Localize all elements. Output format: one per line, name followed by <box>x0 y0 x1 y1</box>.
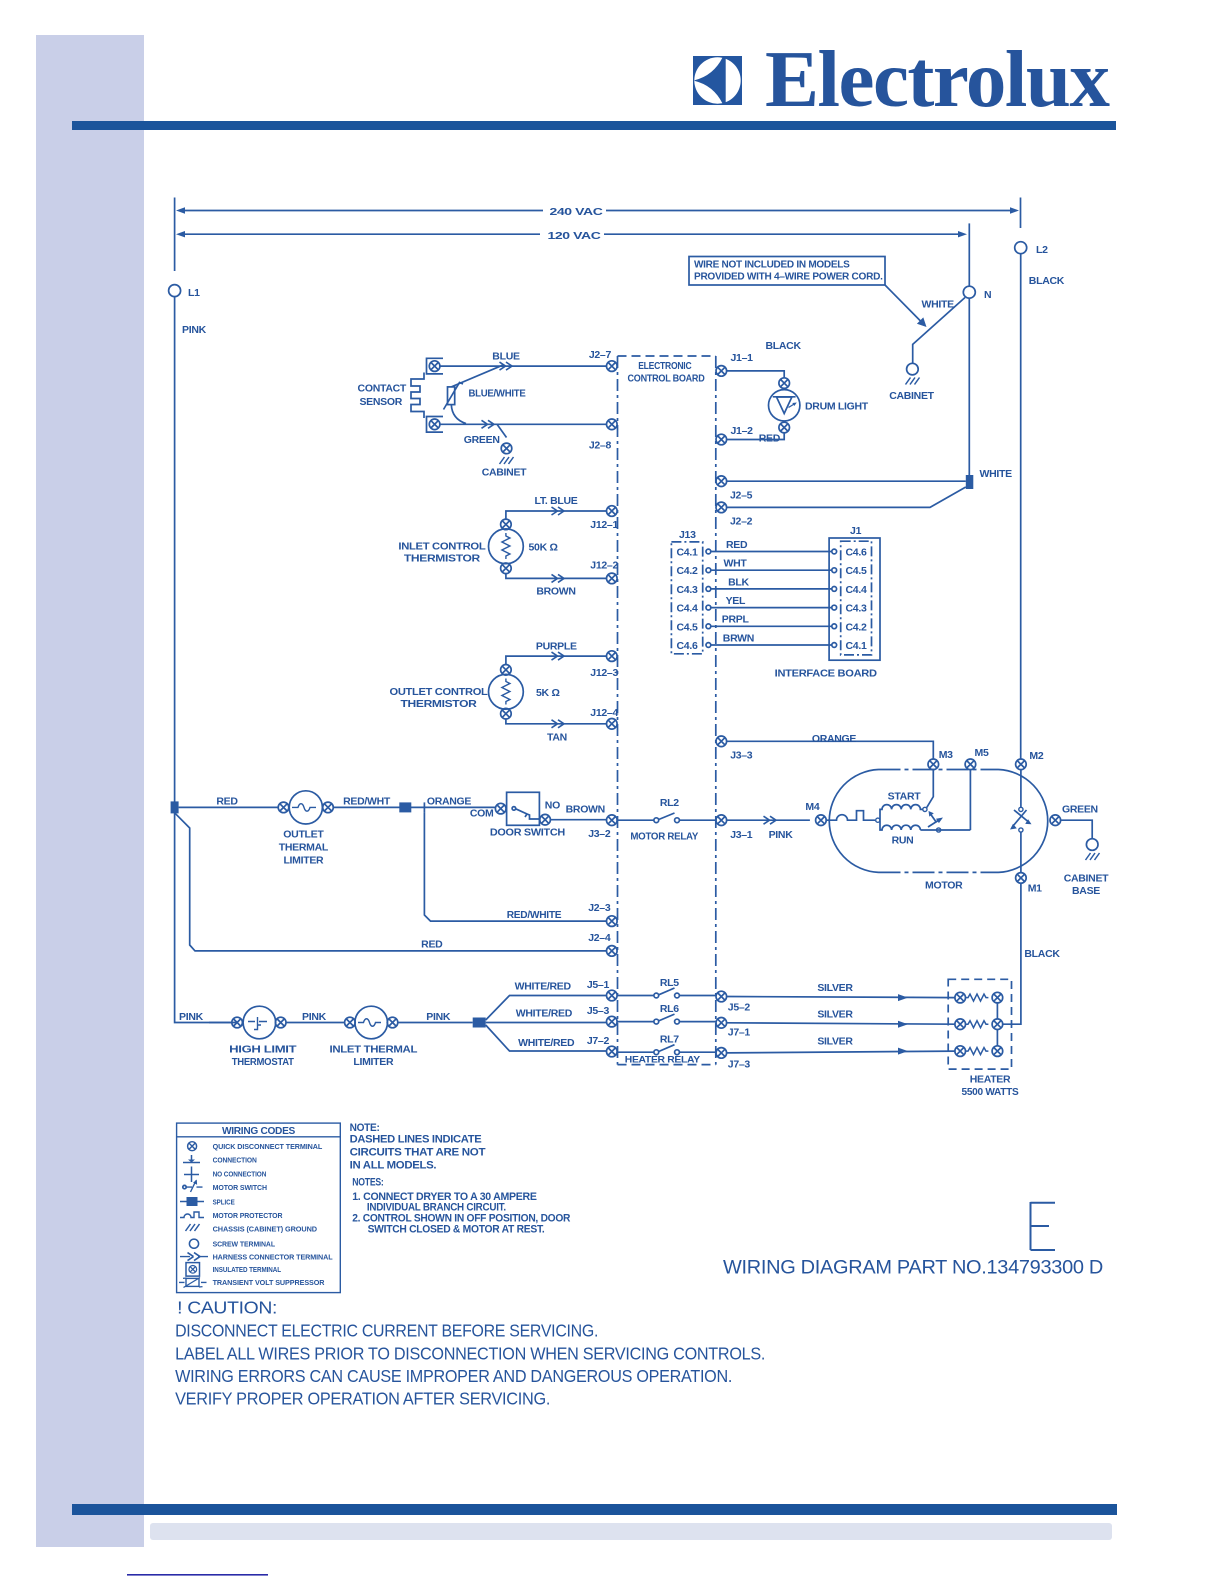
terminal door switch COM <box>495 803 506 814</box>
terminal M2 <box>1016 759 1027 770</box>
wire J2-2 white <box>727 487 966 507</box>
lamp drum light <box>769 390 800 421</box>
wire suppressor to blue <box>451 365 503 387</box>
screw terminal cabinet base <box>1086 839 1098 851</box>
contact sensor upper bracket <box>427 358 444 374</box>
wire J1-2 to drum light <box>727 433 784 440</box>
node L1 <box>169 285 181 297</box>
terminal door switch NO <box>540 814 551 825</box>
svg-text:L1: L1 <box>188 287 200 299</box>
code symbol chassis ground <box>186 1224 200 1231</box>
protector inlet thermal limiter <box>355 1006 388 1039</box>
winding START <box>880 805 923 821</box>
svg-text:WIRING CODES: WIRING CODES <box>222 1126 296 1137</box>
pin circle J1 C4.1 <box>832 643 837 648</box>
svg-text:WIRING ERRORS CAN CAUSE IMPROP: WIRING ERRORS CAN CAUSE IMPROPER AND DAN… <box>175 1366 732 1386</box>
svg-text:BLACK: BLACK <box>1024 948 1060 960</box>
suppressor RV1 diagonal <box>444 383 464 410</box>
svg-text:RL2: RL2 <box>660 797 679 809</box>
splice main left <box>171 801 179 813</box>
svg-text:RED: RED <box>759 433 781 445</box>
arrowhead right 120 <box>958 231 967 237</box>
protector outlet thermal limiter <box>289 791 322 824</box>
svg-text:WHITE/RED: WHITE/RED <box>516 1007 573 1019</box>
wire WHITE/RED J5-1 <box>486 996 607 1021</box>
svg-text:DISCONNECT ELECTRIC CURRENT BE: DISCONNECT ELECTRIC CURRENT BEFORE SERVI… <box>175 1321 598 1341</box>
svg-text:WIRE NOT INCLUDED IN MODELS: WIRE NOT INCLUDED IN MODELS <box>694 259 850 271</box>
splice orange <box>399 802 411 812</box>
switch centrifugal nodes <box>1019 807 1023 811</box>
svg-text:CONNECTION: CONNECTION <box>213 1156 257 1165</box>
svg-text:J2–7: J2–7 <box>589 349 612 361</box>
terminal J1-1 <box>716 366 727 377</box>
svg-text:PINK: PINK <box>179 1011 204 1023</box>
svg-text:NOTES:: NOTES: <box>352 1177 383 1189</box>
svg-text:PROVIDED WITH 4–WIRE POWER COR: PROVIDED WITH 4–WIRE POWER CORD. <box>694 271 883 283</box>
svg-text:TAN: TAN <box>547 732 567 744</box>
svg-text:CABINET: CABINET <box>1064 873 1109 885</box>
switch door switch box <box>507 792 540 825</box>
wire J1-1 to drum light <box>727 371 784 377</box>
svg-text:M5: M5 <box>975 747 989 759</box>
pin circle J13 C4.3 <box>706 587 711 592</box>
wire J2-5 white <box>727 480 966 482</box>
wire BLUE <box>440 365 607 367</box>
svg-text:BLUE/WHITE: BLUE/WHITE <box>469 388 526 400</box>
pin circle J1 C4.4 <box>832 587 837 592</box>
svg-text:TRANSIENT VOLT SUPPRESSOR: TRANSIENT VOLT SUPPRESSOR <box>213 1278 325 1287</box>
svg-text:DASHED LINES INDICATE: DASHED LINES INDICATE <box>350 1134 482 1146</box>
wire PINK motor <box>727 819 810 821</box>
terminal M5 <box>965 759 976 770</box>
svg-text:RUN: RUN <box>892 835 914 847</box>
wire SILVER 1 <box>727 997 955 998</box>
svg-text:PINK: PINK <box>426 1011 451 1023</box>
svg-text:CONTROL BOARD: CONTROL BOARD <box>628 373 706 385</box>
svg-text:RL6: RL6 <box>660 1003 679 1015</box>
motor outline top dash-dot <box>879 769 999 771</box>
note box wire not included <box>689 257 885 286</box>
svg-text:CABINET: CABINET <box>482 467 527 479</box>
wire BLK <box>711 588 832 590</box>
terminal J12-4 <box>607 719 618 730</box>
terminal heater 3 right <box>992 1046 1003 1057</box>
svg-text:PINK: PINK <box>302 1011 327 1023</box>
terminal J5-2 <box>716 991 727 1002</box>
arrowhead silver 3 <box>898 1048 908 1055</box>
svg-text:WHITE/RED: WHITE/RED <box>518 1037 575 1049</box>
terminal J12-2 <box>607 573 618 584</box>
top header bar <box>72 121 1116 130</box>
terminal J2-7 <box>607 361 618 372</box>
arrowhead right 240 <box>1010 207 1019 213</box>
arrowhead left 120 <box>176 231 185 237</box>
harness arrows GREEN <box>482 420 495 428</box>
svg-text:J3–1: J3–1 <box>730 829 753 841</box>
svg-text:SWITCH CLOSED & MOTOR AT REST.: SWITCH CLOSED & MOTOR AT REST. <box>368 1223 545 1235</box>
wire PINK to splice <box>398 1022 473 1024</box>
svg-text:THERMISTOR: THERMISTOR <box>401 698 478 710</box>
bottom bar <box>72 1504 1117 1515</box>
wire BROWN <box>551 819 607 821</box>
svg-text:SILVER: SILVER <box>817 1009 853 1021</box>
terminal inlet limiter right <box>387 1017 398 1028</box>
svg-text:BLACK: BLACK <box>766 340 802 352</box>
wire GREEN row <box>440 423 607 425</box>
wire WHITE/RED J5-3 <box>486 1022 607 1024</box>
terminal outlet thermal limiter left <box>278 802 289 813</box>
wire 240 VAC dimension <box>179 210 1016 212</box>
svg-text:DOOR SWITCH: DOOR SWITCH <box>490 827 565 839</box>
wire ORANGE <box>727 741 933 759</box>
terminal J7-2 <box>607 1046 618 1057</box>
svg-text:J1–2: J1–2 <box>731 425 754 437</box>
svg-text:QUICK DISCONNECT TERMINAL: QUICK DISCONNECT TERMINAL <box>213 1142 323 1151</box>
wire PRPL <box>711 625 832 627</box>
node run wire <box>937 828 941 832</box>
svg-text:PINK: PINK <box>182 324 207 336</box>
terminal heater 2 left <box>955 1019 966 1030</box>
wire green branch to cabinet <box>497 424 507 437</box>
svg-text:WHITE: WHITE <box>980 468 1013 480</box>
terminal M3 <box>928 759 939 770</box>
terminal J5-1 <box>607 990 618 1001</box>
wire heater right link 1-2 <box>996 1003 998 1019</box>
terminal heater 1 left <box>955 992 966 1003</box>
wire YEL <box>711 607 832 609</box>
svg-text:M4: M4 <box>805 801 819 813</box>
svg-text:C4.3: C4.3 <box>846 603 867 615</box>
svg-text:MOTOR RELAY: MOTOR RELAY <box>630 831 698 843</box>
svg-text:INTERFACE BOARD: INTERFACE BOARD <box>775 668 878 680</box>
terminal J7-3 <box>716 1048 727 1059</box>
wire BROWN <box>506 574 607 579</box>
svg-text:J2–2: J2–2 <box>730 516 753 528</box>
svg-text:WIRING DIAGRAM PART NO.1347933: WIRING DIAGRAM PART NO.134793300 D <box>723 1257 1103 1279</box>
suppressor RV1 body <box>448 387 455 405</box>
wire SILVER 3 <box>727 1051 955 1053</box>
wire WHITE/RED J7-2 <box>486 1025 607 1051</box>
wire SILVER 2 <box>727 1023 955 1024</box>
svg-text:BRWN: BRWN <box>723 632 754 644</box>
svg-text:INLET CONTROL: INLET CONTROL <box>398 541 486 553</box>
wire GREEN to cabinet base <box>1061 820 1092 838</box>
svg-text:240 VAC: 240 VAC <box>550 206 604 218</box>
svg-text:BROWN: BROWN <box>566 804 605 816</box>
svg-text:J7–3: J7–3 <box>728 1059 751 1071</box>
tick right 120 / N lead <box>968 223 970 286</box>
svg-text:BLK: BLK <box>728 576 749 588</box>
svg-text:COM: COM <box>470 808 494 820</box>
svg-text:C4.4: C4.4 <box>846 584 867 596</box>
board J1 outer box <box>829 538 880 660</box>
terminal J1-2 <box>716 434 727 445</box>
heater dashed box <box>948 979 1011 1069</box>
svg-text:YEL: YEL <box>726 595 746 607</box>
svg-text:HIGH LIMIT: HIGH LIMIT <box>229 1044 297 1056</box>
svg-text:L2: L2 <box>1036 244 1048 256</box>
svg-text:HARNESS CONNECTOR TERMINAL: HARNESS CONNECTOR TERMINAL <box>213 1252 333 1261</box>
svg-text:CIRCUITS THAT ARE NOT: CIRCUITS THAT ARE NOT <box>350 1146 486 1158</box>
terminal high limit right <box>275 1017 286 1028</box>
svg-text:C4.5: C4.5 <box>677 621 698 633</box>
tick right 240 <box>1020 198 1022 229</box>
pin circle J13 C4.5 <box>706 624 711 629</box>
revision letter E <box>1031 1202 1056 1250</box>
code symbol quick disconnect <box>188 1142 197 1151</box>
pin circle J1 C4.5 <box>832 568 837 573</box>
svg-text:M2: M2 <box>1029 750 1043 762</box>
left lavender band <box>36 35 144 1547</box>
terminal J5-3 <box>607 1016 618 1027</box>
thermistor RT2 outlet <box>489 674 524 709</box>
svg-text:SENSOR: SENSOR <box>359 396 402 408</box>
svg-text:OUTLET CONTROL: OUTLET CONTROL <box>390 686 489 698</box>
wire BRWN <box>711 644 832 646</box>
code symbol splice <box>180 1201 204 1203</box>
svg-text:120 VAC: 120 VAC <box>548 230 602 242</box>
terminal J2-2 <box>716 502 727 513</box>
svg-text:NO CONNECTION: NO CONNECTION <box>213 1169 267 1178</box>
wire switch to M1 <box>1020 832 1022 872</box>
terminal J3-1 <box>716 815 727 826</box>
terminal inlet thermistor top <box>501 519 512 530</box>
svg-text:C4.6: C4.6 <box>846 547 867 559</box>
wire WHT <box>711 569 832 571</box>
wire heater right link 2-3 <box>996 1030 998 1046</box>
motor outline bottom dash-dot <box>879 871 999 873</box>
wire 120 VAC dimension <box>179 233 963 235</box>
wire RED/WHITE J2-3 <box>424 812 606 921</box>
wire RL2 to J3-1 <box>679 819 716 821</box>
svg-text:IN ALL MODELS.: IN ALL MODELS. <box>350 1159 437 1171</box>
node L2 <box>1015 242 1027 254</box>
terminal outlet thermal limiter right <box>323 802 334 813</box>
terminal M1 <box>1016 873 1027 884</box>
terminal J12-3 <box>607 651 618 662</box>
svg-text:LT. BLUE: LT. BLUE <box>535 495 578 507</box>
svg-text:5500 WATTS: 5500 WATTS <box>962 1086 1019 1098</box>
connector J13 box <box>671 542 702 654</box>
svg-text:J12–3: J12–3 <box>590 667 618 679</box>
code symbol motor protector <box>180 1212 204 1218</box>
code symbol insulated terminal <box>186 1263 200 1277</box>
svg-text:WHITE: WHITE <box>922 299 955 311</box>
svg-text:HEATER: HEATER <box>970 1074 1011 1086</box>
svg-text:J12–1: J12–1 <box>590 519 618 531</box>
svg-text:DRUM LIGHT: DRUM LIGHT <box>805 401 869 413</box>
svg-text:CONTACT: CONTACT <box>358 383 407 395</box>
wire M2 to switch <box>1020 770 1022 807</box>
pin circle J13 C4.2 <box>706 568 711 573</box>
svg-text:N: N <box>984 289 991 301</box>
wire RED <box>711 551 832 553</box>
wire L1 main vertical <box>175 297 238 1023</box>
svg-text:J12–4: J12–4 <box>590 707 618 719</box>
terminal J3-2 <box>607 815 618 826</box>
svg-text:SCREW TERMINAL: SCREW TERMINAL <box>213 1240 276 1249</box>
ground cabinet green <box>500 457 514 464</box>
pin circle J13 C4.4 <box>706 605 711 610</box>
svg-text:GREEN: GREEN <box>1062 804 1098 816</box>
terminal J12-1 <box>607 506 618 517</box>
code symbol harness connector <box>180 1256 208 1258</box>
svg-text:RL5: RL5 <box>660 977 679 989</box>
svg-text:START: START <box>888 791 922 803</box>
svg-text:ORANGE: ORANGE <box>427 796 472 808</box>
svg-text:C4.4: C4.4 <box>677 603 698 615</box>
arrowhead silver 2 <box>898 1021 908 1028</box>
svg-text:C4.6: C4.6 <box>677 640 698 652</box>
svg-text:VERIFY PROPER OPERATION AFTER: VERIFY PROPER OPERATION AFTER SERVICING. <box>175 1388 550 1408</box>
contact sensor lower bracket <box>427 417 444 433</box>
svg-text:MOTOR: MOTOR <box>925 880 963 892</box>
Electrolux logo icon <box>693 56 742 105</box>
faint footer ghost text <box>150 1523 1112 1540</box>
motor outline right arc <box>999 770 1048 873</box>
node L1 tick <box>174 198 176 272</box>
terminal drum light bottom <box>779 422 790 433</box>
terminal heater 2 right <box>992 1019 1003 1030</box>
wire PINK itl <box>286 1022 345 1024</box>
wire run to M5 <box>920 770 970 830</box>
svg-text:J2–4: J2–4 <box>588 932 611 944</box>
node start coil end <box>923 807 927 811</box>
door switch blade <box>512 807 516 811</box>
splice pink three-way <box>473 1018 486 1028</box>
terminal heater 1 right <box>992 992 1003 1003</box>
svg-text:RED: RED <box>421 939 443 951</box>
wire RED otl <box>179 806 279 808</box>
svg-text:OUTLET: OUTLET <box>283 829 324 841</box>
svg-text:MOTOR SWITCH: MOTOR SWITCH <box>213 1183 267 1192</box>
svg-text:INSULATED TERMINAL: INSULATED TERMINAL <box>213 1265 282 1274</box>
ground cabinet base <box>1086 853 1100 860</box>
wire RED/WHT to door switch <box>333 806 495 808</box>
ground cabinet <box>906 378 920 385</box>
code symbol connection <box>183 1155 200 1163</box>
terminal heater 3 left <box>955 1046 966 1057</box>
wiring codes box <box>177 1123 341 1293</box>
thermistor RT1 inlet <box>489 529 524 564</box>
node motor common <box>876 818 880 822</box>
contact sensor comb <box>411 373 424 419</box>
svg-text:INLET THERMAL: INLET THERMAL <box>330 1044 419 1056</box>
terminal outlet thermistor bottom <box>501 708 512 719</box>
svg-text:BLACK: BLACK <box>1029 275 1065 287</box>
terminal outlet thermistor top <box>501 665 512 676</box>
svg-text:M1: M1 <box>1028 883 1042 895</box>
svg-text:PRPL: PRPL <box>722 614 750 626</box>
wire to RL2 <box>617 819 654 821</box>
terminal J7-1 <box>716 1018 727 1029</box>
switch start motor-switch arrow <box>928 820 939 827</box>
svg-text:J1–1: J1–1 <box>731 352 754 364</box>
winding RUN <box>880 820 920 830</box>
svg-text:SILVER: SILVER <box>817 982 853 994</box>
svg-text:LIMITER: LIMITER <box>353 1056 394 1068</box>
svg-text:RED/WHT: RED/WHT <box>343 796 391 808</box>
note arrow <box>885 285 921 322</box>
motor M outline left arc <box>829 770 878 873</box>
code symbol motor switch <box>183 1185 186 1188</box>
svg-text:J13: J13 <box>679 529 696 541</box>
pin circle J1 C4.3 <box>832 605 837 610</box>
svg-text:THERMISTOR: THERMISTOR <box>404 553 481 565</box>
svg-text:MOTOR PROTECTOR: MOTOR PROTECTOR <box>213 1211 283 1220</box>
svg-text:C4.2: C4.2 <box>677 565 698 577</box>
svg-text:J2–3: J2–3 <box>588 902 611 914</box>
terminal M4 <box>816 815 827 826</box>
terminal J2-3 <box>607 916 618 927</box>
svg-text:C4.1: C4.1 <box>846 640 867 652</box>
svg-text:! CAUTION:: ! CAUTION: <box>177 1298 277 1318</box>
svg-text:J1: J1 <box>850 525 862 537</box>
svg-text:Electrolux: Electrolux <box>765 34 1110 124</box>
svg-text:J3–2: J3–2 <box>588 828 611 840</box>
pin circle J13 C4.1 <box>706 549 711 554</box>
terminal drum light top <box>779 378 790 389</box>
svg-text:J7–2: J7–2 <box>587 1035 610 1047</box>
svg-text:BASE: BASE <box>1072 885 1100 897</box>
svg-text:5K Ω: 5K Ω <box>536 687 560 699</box>
wire TAN <box>506 719 607 724</box>
svg-text:J5–1: J5–1 <box>587 979 610 991</box>
svg-text:NOTE:: NOTE: <box>350 1122 380 1134</box>
wire PINK hlt <box>209 1022 232 1024</box>
wire LT. BLUE <box>506 511 607 519</box>
svg-text:PURPLE: PURPLE <box>536 641 577 653</box>
wire L2 black vertical to M2 <box>1020 254 1022 759</box>
arrowhead left 240 <box>176 207 185 213</box>
wire PURPLE <box>506 656 607 664</box>
svg-text:LABEL ALL WIRES PRIOR TO DISCO: LABEL ALL WIRES PRIOR TO DISCONNECTION W… <box>175 1343 765 1363</box>
svg-text:RED/WHITE: RED/WHITE <box>507 909 562 921</box>
code symbol no connection <box>184 1167 199 1183</box>
wire M1 black down to heater <box>1003 884 1021 1025</box>
pin circle J13 C4.6 <box>706 643 711 648</box>
terminal J3-3 <box>716 736 727 747</box>
terminal cabinet green <box>501 443 512 454</box>
splice white junction <box>966 475 974 489</box>
terminal J2-5 <box>716 476 727 487</box>
wire N to cabinet ground <box>913 298 965 364</box>
svg-text:M3: M3 <box>939 749 953 761</box>
svg-text:SPLICE: SPLICE <box>213 1197 235 1206</box>
svg-text:C4.3: C4.3 <box>677 584 698 596</box>
svg-text:THERMOSTAT: THERMOSTAT <box>232 1056 295 1068</box>
wire suppressor to green <box>451 405 466 424</box>
pin circle J1 C4.6 <box>832 549 837 554</box>
code symbol screw terminal <box>189 1239 198 1248</box>
switch centrifugal arrows <box>1013 810 1027 826</box>
bottom navy rule <box>127 1574 268 1576</box>
terminal contact sensor lower <box>429 419 440 430</box>
svg-text:THERMAL: THERMAL <box>279 842 329 854</box>
svg-text:CHASSIS (CABINET) GROUND: CHASSIS (CABINET) GROUND <box>213 1224 318 1233</box>
terminal motor GREEN <box>1050 815 1061 826</box>
pin circle J1 C4.2 <box>832 624 837 629</box>
wire M3 to start switch blade <box>927 770 934 808</box>
terminal J2-4 <box>607 946 618 957</box>
node N <box>963 286 975 298</box>
svg-text:WHT: WHT <box>724 558 748 570</box>
svg-text:HEATER RELAY: HEATER RELAY <box>625 1054 701 1065</box>
svg-text:50K Ω: 50K Ω <box>529 542 558 554</box>
svg-text:NO: NO <box>545 800 560 812</box>
svg-text:ELECTRONIC: ELECTRONIC <box>638 360 692 372</box>
svg-text:ORANGE: ORANGE <box>812 733 857 745</box>
